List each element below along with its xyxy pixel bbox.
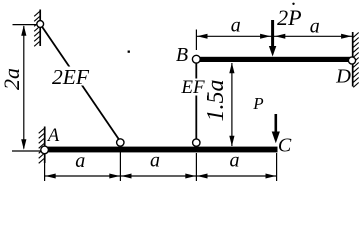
svg-text:2EF: 2EF	[52, 65, 90, 89]
dimension row top (a,a)	[196, 30, 352, 51]
svg-text:a: a	[150, 150, 160, 172]
label EF (on vertical bar)	[180, 77, 207, 98]
bar 2EF (diagonal)	[40, 24, 119, 140]
beam BD (top)	[196, 57, 352, 62]
dimension 2a (left vertical)	[12, 25, 41, 151]
force 2P arrow	[269, 20, 276, 57]
svg-text:P: P	[252, 94, 263, 113]
svg-text:D: D	[335, 66, 351, 88]
beam AC (bottom)	[45, 147, 278, 153]
svg-text:2a: 2a	[0, 68, 24, 90]
svg-text:a: a	[75, 150, 85, 172]
svg-text:EF: EF	[180, 77, 205, 98]
svg-text:a: a	[310, 16, 320, 38]
wall support top-left	[34, 10, 40, 47]
pin A	[41, 146, 49, 154]
wall support at A	[39, 127, 45, 164]
svg-text:B: B	[176, 44, 188, 66]
stray dot near middle	[128, 51, 130, 53]
node N1 (hinge on beam)	[117, 139, 124, 146]
wall support at D	[353, 32, 359, 87]
svg-text:a: a	[230, 150, 240, 172]
svg-text:A: A	[46, 126, 60, 146]
bar EF (vertical)	[195, 59, 197, 143]
stray dot above 2P	[292, 3, 294, 5]
svg-text:C: C	[278, 135, 292, 157]
label 2EF (on diagonal bar)	[51, 65, 90, 89]
svg-text:a: a	[231, 15, 241, 37]
dimension 1.5a (vertical mid)	[229, 63, 234, 147]
pin D	[348, 57, 355, 64]
svg-text:2P: 2P	[277, 5, 301, 30]
node B	[192, 55, 200, 63]
force P arrow	[272, 114, 280, 143]
dimension row bottom (a,a,a)	[45, 147, 277, 182]
node N2 (hinge on beam)	[193, 139, 200, 146]
pin top-left wall	[37, 21, 44, 28]
